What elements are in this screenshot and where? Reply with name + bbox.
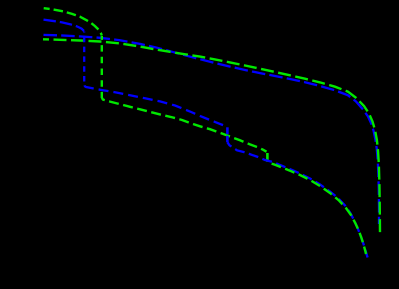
curve: green lower second vertical drop [266,153,269,162]
curve: green lower mid plateau [102,98,267,152]
curve: blue lower tail [227,142,367,257]
curve: green lower plateau (start) [44,8,102,35]
curve: green lower first vertical drop [101,36,103,98]
curve: blue lower second vertical drop [226,127,229,142]
curve: green lower tail [267,162,366,254]
curve: blue lower plateau (start) [44,20,85,31]
curve: blue lower first vertical drop [83,32,85,87]
curve: blue lower mid plateau [84,86,227,127]
curve: blue upper discharge line [44,35,380,224]
curve: green upper discharge line [43,39,380,233]
